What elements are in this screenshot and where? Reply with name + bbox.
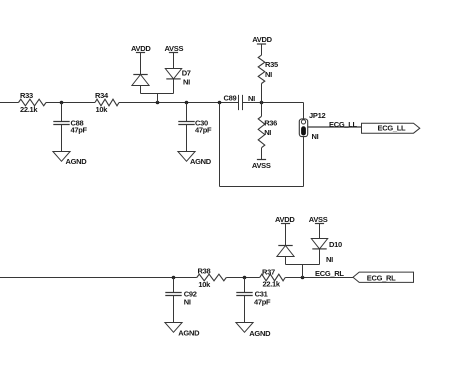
svg-text:AGND: AGND bbox=[190, 157, 212, 166]
svg-text:AVDD: AVDD bbox=[252, 35, 272, 44]
svg-text:NI: NI bbox=[265, 70, 272, 79]
svg-text:22.1k: 22.1k bbox=[263, 280, 281, 289]
svg-text:10k: 10k bbox=[96, 105, 109, 114]
svg-text:AGND: AGND bbox=[66, 157, 88, 166]
svg-text:47pF: 47pF bbox=[195, 125, 212, 134]
svg-text:AGND: AGND bbox=[249, 329, 271, 338]
svg-text:R33: R33 bbox=[20, 91, 33, 100]
svg-text:AVSS: AVSS bbox=[252, 161, 271, 170]
svg-text:D10: D10 bbox=[329, 240, 342, 249]
svg-text:AVDD: AVDD bbox=[131, 44, 151, 53]
svg-text:AGND: AGND bbox=[178, 329, 200, 338]
svg-text:NI: NI bbox=[312, 132, 319, 141]
svg-text:ECG_RL: ECG_RL bbox=[315, 269, 344, 278]
svg-text:10k: 10k bbox=[198, 280, 211, 289]
svg-text:47pF: 47pF bbox=[71, 125, 88, 134]
svg-text:R37: R37 bbox=[262, 267, 275, 276]
svg-text:ECG_LL: ECG_LL bbox=[329, 120, 358, 129]
svg-text:ECG_LL: ECG_LL bbox=[378, 123, 407, 132]
svg-text:AVDD: AVDD bbox=[275, 215, 295, 224]
svg-text:R34: R34 bbox=[95, 91, 109, 100]
svg-text:NI: NI bbox=[183, 77, 190, 86]
svg-text:JP12: JP12 bbox=[309, 111, 325, 120]
svg-text:AVSS: AVSS bbox=[165, 44, 184, 53]
svg-text:D7: D7 bbox=[182, 69, 191, 78]
svg-text:R38: R38 bbox=[198, 266, 211, 275]
svg-text:AVSS: AVSS bbox=[309, 215, 328, 224]
svg-text:NI: NI bbox=[264, 128, 271, 137]
svg-text:ECG_RL: ECG_RL bbox=[367, 274, 396, 283]
svg-text:NI: NI bbox=[184, 297, 191, 306]
svg-text:R36: R36 bbox=[264, 119, 277, 128]
svg-text:NI: NI bbox=[326, 255, 333, 264]
svg-text:NI: NI bbox=[248, 94, 255, 103]
svg-text:R35: R35 bbox=[265, 60, 278, 69]
svg-text:22.1k: 22.1k bbox=[20, 105, 38, 114]
svg-text:47pF: 47pF bbox=[254, 297, 271, 306]
svg-text:C89: C89 bbox=[224, 94, 237, 103]
